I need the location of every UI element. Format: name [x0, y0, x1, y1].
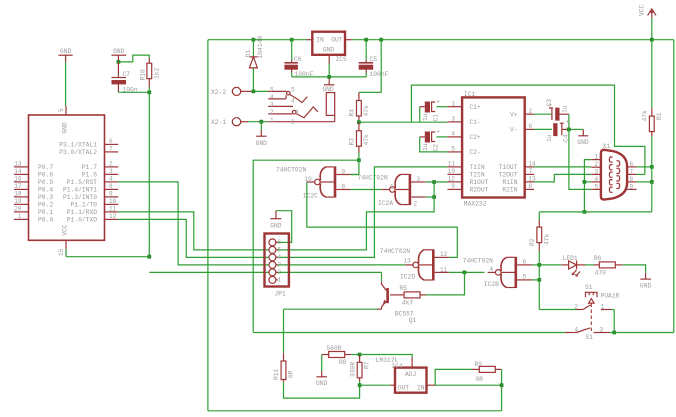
- node IC2B output junction: [463, 271, 467, 275]
- svg-text:IN: IN: [417, 384, 425, 391]
- switch S1 upper contacts: [577, 309, 584, 311]
- svg-text:GND: GND: [113, 48, 125, 55]
- wire C4 node down to X1 pin5: [569, 129, 591, 189]
- svg-text:GND: GND: [322, 86, 334, 93]
- wire TXD net uC pin12 to JP1 row3: [118, 219, 269, 257]
- svg-text:6: 6: [109, 138, 113, 145]
- svg-text:R1: R1: [656, 112, 663, 120]
- wire JP1 row5 net GND column to Q1 collector: [149, 271, 269, 273]
- svg-text:3: 3: [295, 109, 299, 116]
- node rail-R4 junction: [379, 38, 383, 42]
- svg-text:1: 1: [18, 213, 22, 220]
- svg-text:16: 16: [14, 176, 22, 183]
- svg-text:3: 3: [270, 102, 274, 109]
- svg-text:12: 12: [109, 213, 117, 220]
- node rail-D1 junction: [252, 38, 256, 42]
- svg-text:JP1: JP1: [275, 291, 287, 298]
- svg-text:IC2C: IC2C: [303, 193, 318, 200]
- wire X1 pin8 to R1 column: [637, 181, 652, 183]
- wire divider mid down-left long branch: [253, 160, 359, 332]
- svg-text:2: 2: [574, 304, 578, 311]
- svg-text:6: 6: [523, 259, 527, 266]
- wire IC2D input11 to IC2B output: [449, 271, 484, 273]
- svg-text:1: 1: [291, 119, 295, 126]
- svg-text:GND: GND: [256, 140, 268, 147]
- svg-text:2: 2: [270, 109, 274, 116]
- svg-text:2: 2: [595, 161, 599, 168]
- svg-text:R7: R7: [364, 361, 371, 369]
- svg-text:Q1: Q1: [409, 317, 417, 324]
- wire long net to R2 top: [538, 212, 540, 220]
- svg-text:V+: V+: [510, 112, 518, 119]
- wire bottom outer rail: [208, 410, 502, 412]
- svg-text:IC1: IC1: [464, 91, 476, 98]
- svg-text:P3.1/XTAL1: P3.1/XTAL1: [59, 142, 97, 149]
- wire X2-2 to jack: [251, 90, 268, 92]
- wire R1IN jog to X1 pin3: [534, 174, 591, 182]
- diode D1 1N4148: [249, 56, 257, 58]
- ground GND at JP1: [276, 211, 292, 243]
- wire IC4 OUT to R7 node: [390, 384, 395, 386]
- svg-text:P1.3/INT0: P1.3/INT0: [63, 194, 97, 201]
- uC pin 8 P1.4/INT1: [105, 188, 119, 190]
- wire IC2B input6 node: [532, 264, 540, 266]
- svg-text:1k2: 1k2: [154, 67, 161, 79]
- svg-text:X1: X1: [603, 143, 611, 150]
- wire GND column down to uC pin15: [148, 92, 150, 256]
- uC pin 10 P1.2/T0: [105, 203, 119, 205]
- node column to long net junction: [583, 210, 587, 214]
- jack switch arm upper: [287, 91, 291, 95]
- resistor R7 330R: [359, 355, 361, 363]
- svg-text:C2-: C2-: [470, 149, 481, 156]
- connector pad X2-1: [232, 118, 240, 126]
- svg-text:0R: 0R: [288, 370, 295, 378]
- wire divider mid to IC2C input 9: [351, 160, 359, 174]
- uC pin 2 P1.7: [105, 166, 119, 168]
- node R7 bottom junction: [358, 383, 362, 387]
- svg-text:C6: C6: [294, 56, 302, 63]
- svg-text:11: 11: [448, 161, 456, 168]
- X1 pin 7: [627, 173, 637, 175]
- svg-text:X2-1: X2-1: [211, 119, 226, 126]
- IC1 pin 11 T1IN: [448, 166, 463, 168]
- svg-text:560R: 560R: [326, 345, 341, 352]
- svg-text:P1.0/TXD: P1.0/TXD: [67, 217, 97, 224]
- svg-text:12: 12: [440, 251, 448, 258]
- svg-text:R1OUT: R1OUT: [470, 179, 489, 186]
- svg-text:T1OUT: T1OUT: [499, 164, 518, 171]
- connector X1 DB9 body: [601, 150, 627, 200]
- jack bushing: [326, 93, 334, 116]
- wire rail to R4: [359, 40, 381, 93]
- svg-text:5: 5: [523, 274, 527, 281]
- wire T1OUT to X1 pin2: [534, 166, 591, 168]
- wire V- node to GND stub: [569, 128, 583, 130]
- node rail-C6 junction: [290, 38, 294, 42]
- resistor R1: [649, 116, 654, 132]
- svg-text:P0.3: P0.3: [38, 194, 53, 201]
- wire C1 left to C1- row: [420, 106, 425, 108]
- svg-text:5: 5: [58, 108, 65, 112]
- jack switch arm lower: [292, 110, 296, 114]
- svg-text:1N4148: 1N4148: [257, 36, 264, 59]
- svg-text:2: 2: [278, 269, 282, 276]
- svg-text:P0.2: P0.2: [38, 202, 53, 209]
- svg-text:R5: R5: [399, 285, 407, 292]
- svg-text:P0.4: P0.4: [38, 187, 53, 194]
- svg-text:R8: R8: [339, 359, 347, 366]
- svg-text:R2: R2: [529, 238, 536, 246]
- svg-text:GND: GND: [270, 222, 282, 229]
- svg-text:V-: V-: [510, 127, 518, 134]
- uC pin 16 P0.5: [14, 181, 29, 183]
- gate IC2D 74HCT02N: [432, 249, 435, 280]
- wire uC pin5 to GND: [65, 62, 67, 106]
- svg-text:OUT: OUT: [331, 37, 343, 44]
- wire RXD net uC pin11 to JP1 row2: [118, 212, 269, 250]
- node R3 bottom junction: [357, 158, 361, 162]
- wire C7 bottom to R10 bottom: [118, 91, 149, 93]
- wire LED to R6: [585, 264, 594, 266]
- node X1 pin4 junction: [584, 181, 591, 183]
- svg-text:3: 3: [595, 168, 599, 175]
- wire ADJ net: [360, 355, 413, 358]
- switch S1 linkage dashed: [590, 304, 592, 332]
- uC pin 9 P1.3/INT0: [105, 196, 119, 198]
- IC1 pin 9 R2OUT: [448, 188, 463, 190]
- X1 pin 4: [591, 181, 601, 183]
- wire long net to R2: [539, 211, 652, 213]
- svg-text:3: 3: [417, 176, 421, 183]
- svg-text:P0.7: P0.7: [38, 164, 53, 171]
- svg-text:5: 5: [278, 247, 282, 254]
- svg-text:17: 17: [14, 183, 22, 190]
- wire Q1 collector up to row5: [381, 272, 383, 281]
- svg-text:IC2A: IC2A: [378, 200, 393, 207]
- svg-text:4: 4: [291, 98, 295, 105]
- svg-text:+: +: [436, 129, 440, 136]
- wire IC2B input6 to LED: [539, 264, 561, 266]
- svg-text:P1.4/INT1: P1.4/INT1: [63, 187, 97, 194]
- svg-text:8: 8: [529, 183, 533, 190]
- resistor R5 4k7: [390, 294, 404, 296]
- ground GND at jack bushing: [328, 77, 330, 85]
- uC pin 11 P1.1/RXD: [105, 211, 119, 213]
- svg-text:5: 5: [291, 87, 295, 94]
- wire switch line to R11: [283, 309, 285, 353]
- svg-text:IN: IN: [316, 37, 324, 44]
- wire JP1 row3 right to T1IN: [276, 167, 448, 258]
- node IC2A input3 junction: [432, 180, 436, 184]
- node R8/R7/ADJ junction: [358, 353, 362, 357]
- wire IC2C input9 link: [351, 174, 359, 176]
- supply VCC arrow: [648, 9, 656, 18]
- wire left outer rail: [207, 40, 209, 411]
- svg-text:74HCT02N: 74HCT02N: [358, 174, 388, 181]
- svg-text:47k: 47k: [363, 105, 370, 117]
- wire IC2A input2 tie: [426, 196, 434, 198]
- svg-text:X2-2: X2-2: [211, 89, 226, 96]
- wire R8 to R7 node: [345, 354, 352, 356]
- resistor R3: [358, 122, 360, 131]
- wire VCC top rail: [208, 39, 307, 41]
- IC1 pin 8 R2IN: [525, 188, 534, 190]
- wire IC2A inputs down to JP1 row2: [276, 197, 434, 250]
- IC1 pin 2 V+: [525, 113, 534, 115]
- svg-text:9: 9: [109, 191, 113, 198]
- resistor R2 47k: [537, 227, 542, 243]
- svg-text:C1+: C1+: [470, 104, 482, 111]
- svg-text:3: 3: [451, 116, 455, 123]
- IC1 pin 4 C2+: [448, 136, 463, 138]
- svg-text:GND: GND: [62, 122, 69, 134]
- svg-text:8: 8: [109, 183, 113, 190]
- svg-text:LED1: LED1: [563, 255, 578, 262]
- node IC5 GND junction: [327, 75, 331, 79]
- JP1 pins: [269, 239, 276, 246]
- node GND2 junction: [117, 60, 121, 64]
- svg-text:4: 4: [490, 266, 494, 273]
- wire R1 bottom to X1 pins: [651, 136, 653, 212]
- ground GND at C4: [582, 129, 584, 135]
- svg-text:VCC: VCC: [639, 4, 646, 16]
- svg-text:C7: C7: [123, 71, 131, 78]
- svg-text:R4: R4: [349, 109, 356, 117]
- svg-text:1: 1: [270, 117, 274, 124]
- svg-text:10: 10: [448, 168, 456, 175]
- svg-text:C3: C3: [546, 99, 553, 107]
- microcontroller IC box: [29, 115, 105, 240]
- svg-text:74HCT02N: 74HCT02N: [276, 167, 306, 174]
- ground GND at uC pin 5: [59, 54, 73, 56]
- wire C1- net with frame corner: [359, 121, 448, 123]
- gate IC2B 74HCT02N: [515, 257, 518, 288]
- svg-text:14: 14: [14, 168, 22, 175]
- svg-text:P1.6: P1.6: [82, 172, 97, 179]
- svg-text:13: 13: [404, 258, 412, 265]
- svg-text:T2OUT: T2OUT: [499, 172, 518, 179]
- svg-text:20: 20: [14, 206, 22, 213]
- svg-text:MAX232: MAX232: [464, 201, 487, 208]
- switch S1 lower contacts: [565, 332, 577, 334]
- resistor R9 0R: [472, 368, 480, 370]
- svg-text:VCC: VCC: [62, 224, 69, 236]
- LED LED1: [561, 264, 568, 266]
- svg-text:7: 7: [630, 168, 634, 175]
- svg-text:1: 1: [390, 183, 394, 190]
- svg-text:1: 1: [601, 304, 605, 311]
- svg-text:5: 5: [451, 146, 455, 153]
- IC1 pin 12 R1OUT: [448, 181, 463, 183]
- svg-text:47k: 47k: [363, 134, 370, 146]
- svg-text:3: 3: [278, 262, 282, 269]
- svg-text:6: 6: [630, 161, 634, 168]
- svg-text:GND: GND: [577, 139, 589, 146]
- svg-text:0R: 0R: [476, 376, 484, 383]
- wire Q1 emitter to R11 line: [284, 308, 378, 310]
- capacitor C4: [534, 128, 552, 130]
- wire R11 bottom to R7 node: [284, 382, 360, 398]
- svg-text:5: 5: [270, 87, 274, 94]
- svg-text:7: 7: [529, 168, 533, 175]
- svg-text:1u: 1u: [546, 134, 553, 142]
- svg-text:P1.2/T0: P1.2/T0: [71, 202, 98, 209]
- wire IC2C output down: [307, 182, 458, 257]
- svg-text:10: 10: [109, 198, 117, 205]
- svg-text:P0.1: P0.1: [38, 209, 53, 216]
- wire IC4 IN net: [427, 384, 435, 386]
- svg-text:9: 9: [342, 168, 346, 175]
- wire IC2B input5 node: [532, 279, 540, 281]
- wire GND2 jog to R10 top: [118, 55, 149, 62]
- svg-text:P3.0/XTAL2: P3.0/XTAL2: [59, 149, 97, 156]
- resistor R6 470: [594, 264, 599, 266]
- wire D1 column top: [252, 40, 254, 57]
- node R10/C7 junction: [147, 90, 151, 94]
- svg-text:2: 2: [109, 161, 113, 168]
- svg-text:15: 15: [58, 248, 65, 256]
- svg-text:11: 11: [109, 206, 117, 213]
- connector jack X2 pins: [268, 90, 286, 92]
- svg-text:P1.1/RXD: P1.1/RXD: [67, 209, 97, 216]
- wire X2-1 to jack pin1: [248, 121, 268, 123]
- uC pin 20 P0.1: [14, 211, 29, 213]
- op-amp IC1 MAX232 box: [462, 97, 525, 197]
- svg-text:11: 11: [440, 266, 448, 273]
- svg-text:T2IN: T2IN: [470, 172, 485, 179]
- uC pin 15 bottom stub: [65, 240, 67, 249]
- IC1 pin 13 R1IN: [525, 181, 534, 183]
- svg-text:12: 12: [448, 176, 456, 183]
- wire IC2D input12 from IC2C chain: [448, 256, 450, 258]
- uC pin 3 P1.6: [105, 173, 119, 175]
- capacitor C6: [291, 40, 293, 60]
- uC pin 4 P1.5/RST: [105, 181, 119, 183]
- capacitor C3: [534, 113, 552, 115]
- svg-text:5: 5: [595, 183, 599, 190]
- svg-text:4: 4: [574, 326, 578, 333]
- svg-text:+: +: [566, 119, 570, 126]
- wire IC2C input8 to IC2A output: [351, 189, 382, 191]
- uC pin 6 P3.1/XTAL1: [105, 143, 119, 145]
- uC pin 18 P0.3: [14, 196, 29, 198]
- svg-text:R2IN: R2IN: [502, 187, 517, 194]
- uC pin 5 top stub: [65, 106, 67, 115]
- svg-text:8: 8: [342, 183, 346, 190]
- IC1 pin 5 C2-: [448, 151, 463, 153]
- svg-text:4: 4: [451, 131, 455, 138]
- ground GND at C7/R10: [112, 54, 127, 56]
- svg-text:6: 6: [278, 239, 282, 246]
- wire C2 left to C2- row: [420, 136, 425, 138]
- wire bottom mid rail: [253, 332, 565, 334]
- svg-text:3: 3: [109, 168, 113, 175]
- wire X1 pin7 to frame: [637, 173, 645, 175]
- wire D1 bottom to X2-2 node: [252, 68, 254, 92]
- wire uC pin15 to GND column: [66, 256, 149, 258]
- svg-text:R11: R11: [273, 368, 280, 380]
- ground GND at R8: [321, 355, 323, 372]
- wire IC2B column to switch: [539, 309, 576, 311]
- voltage regulator IC5 box: [312, 32, 345, 55]
- uC pin 1 P0.0: [14, 218, 29, 220]
- connector pad X2-2: [232, 88, 240, 96]
- svg-text:1: 1: [451, 101, 455, 108]
- IC1 pin 14 T1OUT: [525, 166, 534, 168]
- IC5 ground lead: [328, 55, 330, 64]
- X1 pin 6: [627, 166, 637, 168]
- svg-text:2: 2: [414, 200, 418, 207]
- svg-text:R1IN: R1IN: [502, 179, 517, 186]
- uC pin 13 P0.7: [14, 166, 29, 168]
- svg-text:4: 4: [595, 176, 599, 183]
- wire right outer rail: [673, 40, 675, 333]
- svg-text:7: 7: [109, 146, 113, 153]
- wire X1 pin1 to left column: [584, 160, 591, 212]
- svg-text:47k: 47k: [543, 233, 550, 245]
- uC pin 19 P0.2: [14, 203, 29, 205]
- svg-text:P1.7: P1.7: [82, 164, 97, 171]
- svg-text:74HCT02N: 74HCT02N: [380, 248, 410, 255]
- wire IC2A input3 to R1OUT: [426, 181, 448, 183]
- capacitor C7: [117, 62, 119, 77]
- svg-text:330R: 330R: [349, 362, 356, 377]
- svg-text:GND: GND: [323, 47, 335, 54]
- capacitor C5: [364, 38, 368, 42]
- resistor R11 0R: [281, 361, 286, 380]
- svg-text:IC2B: IC2B: [484, 281, 499, 288]
- svg-text:R10: R10: [140, 69, 147, 81]
- wire C6/IC5-GND/C5 ground rail: [292, 76, 367, 78]
- X1 pin 2: [591, 166, 601, 168]
- svg-text:R2OUT: R2OUT: [470, 187, 489, 194]
- ground GND at X2-1: [260, 122, 262, 130]
- node C4/V- junction: [567, 128, 571, 132]
- wire frame top net: [411, 85, 645, 174]
- wire R9 parallel jog: [435, 369, 472, 385]
- svg-text:T1IN: T1IN: [470, 164, 485, 171]
- wire switch pin1 down: [611, 309, 614, 311]
- svg-text:C1-: C1-: [470, 119, 481, 126]
- svg-text:ADJ: ADJ: [405, 371, 417, 378]
- svg-text:74HCT02N: 74HCT02N: [463, 257, 493, 264]
- X1 contacts: [609, 157, 612, 162]
- node IN-rail junction: [500, 383, 504, 387]
- svg-text:18: 18: [14, 191, 22, 198]
- ground GND after R6: [645, 273, 647, 279]
- svg-text:13: 13: [14, 161, 22, 168]
- wire R5 to IC2B output node: [426, 272, 464, 295]
- node switch bottom junction: [612, 331, 616, 335]
- wire RST net uC pin4 to JP1 row4: [118, 182, 269, 265]
- wire X1 pin6 to R1 column: [637, 166, 652, 168]
- IC1 pin 6 V-: [525, 128, 534, 130]
- svg-text:9: 9: [630, 183, 634, 190]
- svg-text:4: 4: [109, 176, 113, 183]
- voltage regulator IC4 LM317L box: [395, 368, 427, 393]
- resistor R10: [147, 63, 152, 78]
- node R4/R3 junction: [357, 120, 361, 124]
- connector JP1 box: [265, 234, 289, 287]
- capacitor C2: [425, 132, 430, 143]
- X1 pin 3: [591, 173, 601, 175]
- uC pin 12 P1.0/TXD: [105, 218, 119, 220]
- svg-text:4: 4: [270, 94, 274, 101]
- transistor Q1 BC557: [386, 288, 389, 303]
- svg-text:OUT: OUT: [398, 384, 410, 391]
- X1 pin 1: [591, 159, 601, 161]
